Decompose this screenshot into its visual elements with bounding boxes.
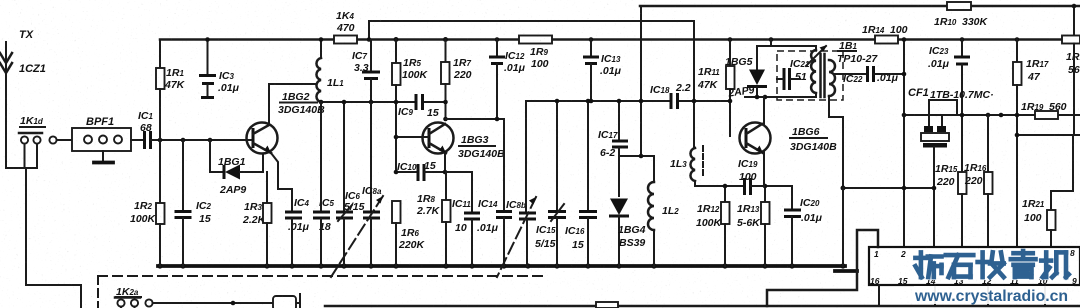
resistor 1R18 560 (right edge) (1073, 6, 1075, 35)
wire 1K2a output (153, 302, 301, 304)
wire pin12 down (987, 285, 989, 306)
wire audio bus y306 (325, 305, 1080, 308)
wire supply rail y39 (160, 38, 1080, 41)
gang arrow IC8b (497, 197, 536, 277)
capacitor IC8a variable (below bus) (370, 102, 372, 210)
capacitor IC2 15 (182, 140, 184, 210)
wire x843 to ground end (842, 188, 844, 266)
transistor 1BG6 (740, 123, 771, 154)
node rail39/369 (367, 37, 372, 42)
wire rail y21 drop to y39 (368, 21, 370, 40)
wire osc collector node y97 (745, 96, 816, 98)
wire 1L3 to osc bus y186 (695, 181, 744, 186)
ground BPF1 (102, 151, 104, 161)
wire down from switch to band area (26, 168, 81, 308)
capacitor IC3 .01u (207, 40, 209, 75)
tuning arrow 1B1 (806, 46, 826, 66)
wire IC22 drop x904 (903, 40, 905, 248)
wire detector out bus y188 (843, 187, 934, 189)
wire pin10 down (1044, 285, 1046, 306)
wire step to IC pin1 (767, 230, 878, 306)
wire detector node jog (619, 155, 654, 157)
wire 1BG3 emitter line (444, 153, 446, 172)
transformer 1B1 secondary (829, 60, 835, 96)
diode 1BG4 BS39 (610, 199, 628, 216)
inductor 1L1 (320, 40, 322, 59)
scan noise overlay (0, 0, 1, 1)
wire y135 right (1017, 134, 1080, 136)
wire secondary bottom to detector line (829, 96, 843, 188)
component box on audio bus (596, 302, 618, 308)
wire pin14 down (934, 285, 936, 306)
resistor 1R5 100K (394, 37, 399, 42)
wire 1BG2 collector (269, 84, 316, 125)
ground bar at rail end (835, 269, 857, 273)
transistor 1BG2 (247, 123, 278, 154)
wire antenna bottom bus (6, 167, 37, 169)
wire 1BG3 collector jog to IC14 (446, 119, 504, 210)
gang arrow IC8a (331, 196, 383, 277)
wire 1BG3 base (396, 136, 428, 138)
wire rail21 drop to bus (693, 21, 695, 148)
watermark crystalradio logo (913, 250, 1075, 306)
node 1L1 bottom (319, 100, 324, 105)
wire signal bus segment A y102 (320, 101, 414, 103)
transistor 1BG3 (423, 123, 454, 154)
wire switch output to BPF1 (57, 139, 73, 141)
wire 1BG2 emitter to IC4 (271, 153, 292, 211)
wire 1BG6 emitter (763, 152, 765, 186)
wire bottom ground rail (158, 264, 845, 268)
wire rail y6 drop at x641 (640, 6, 642, 155)
capacitor IC21 51 (dashed tuned pack) (777, 51, 843, 100)
wire feedback rail y21 (369, 20, 694, 22)
node base bus dots (158, 138, 163, 143)
filter BPF1 box (72, 128, 131, 151)
dashed gang coupling line (97, 276, 99, 308)
antenna 1CZ1 arrow (5, 42, 7, 168)
resistor 1R6 220K (392, 201, 401, 223)
jack box bottom left (273, 296, 296, 308)
wire 1BG2 base bus y140 (151, 139, 252, 141)
wire pin16 down (878, 285, 880, 306)
IC U1 block (869, 247, 1080, 285)
resistor 1R7 220 (443, 37, 448, 42)
resistor 1R9 100 (on rail) (519, 36, 552, 44)
node ground rail junctions (157, 263, 162, 268)
wire AGC bus y115 (904, 114, 1080, 116)
wire 1BG6 collector (763, 97, 765, 124)
resistor 1R1 47K (159, 40, 161, 69)
wire top supply rail y6 (640, 5, 1080, 8)
wire signal bus segment B y101 (526, 100, 669, 102)
